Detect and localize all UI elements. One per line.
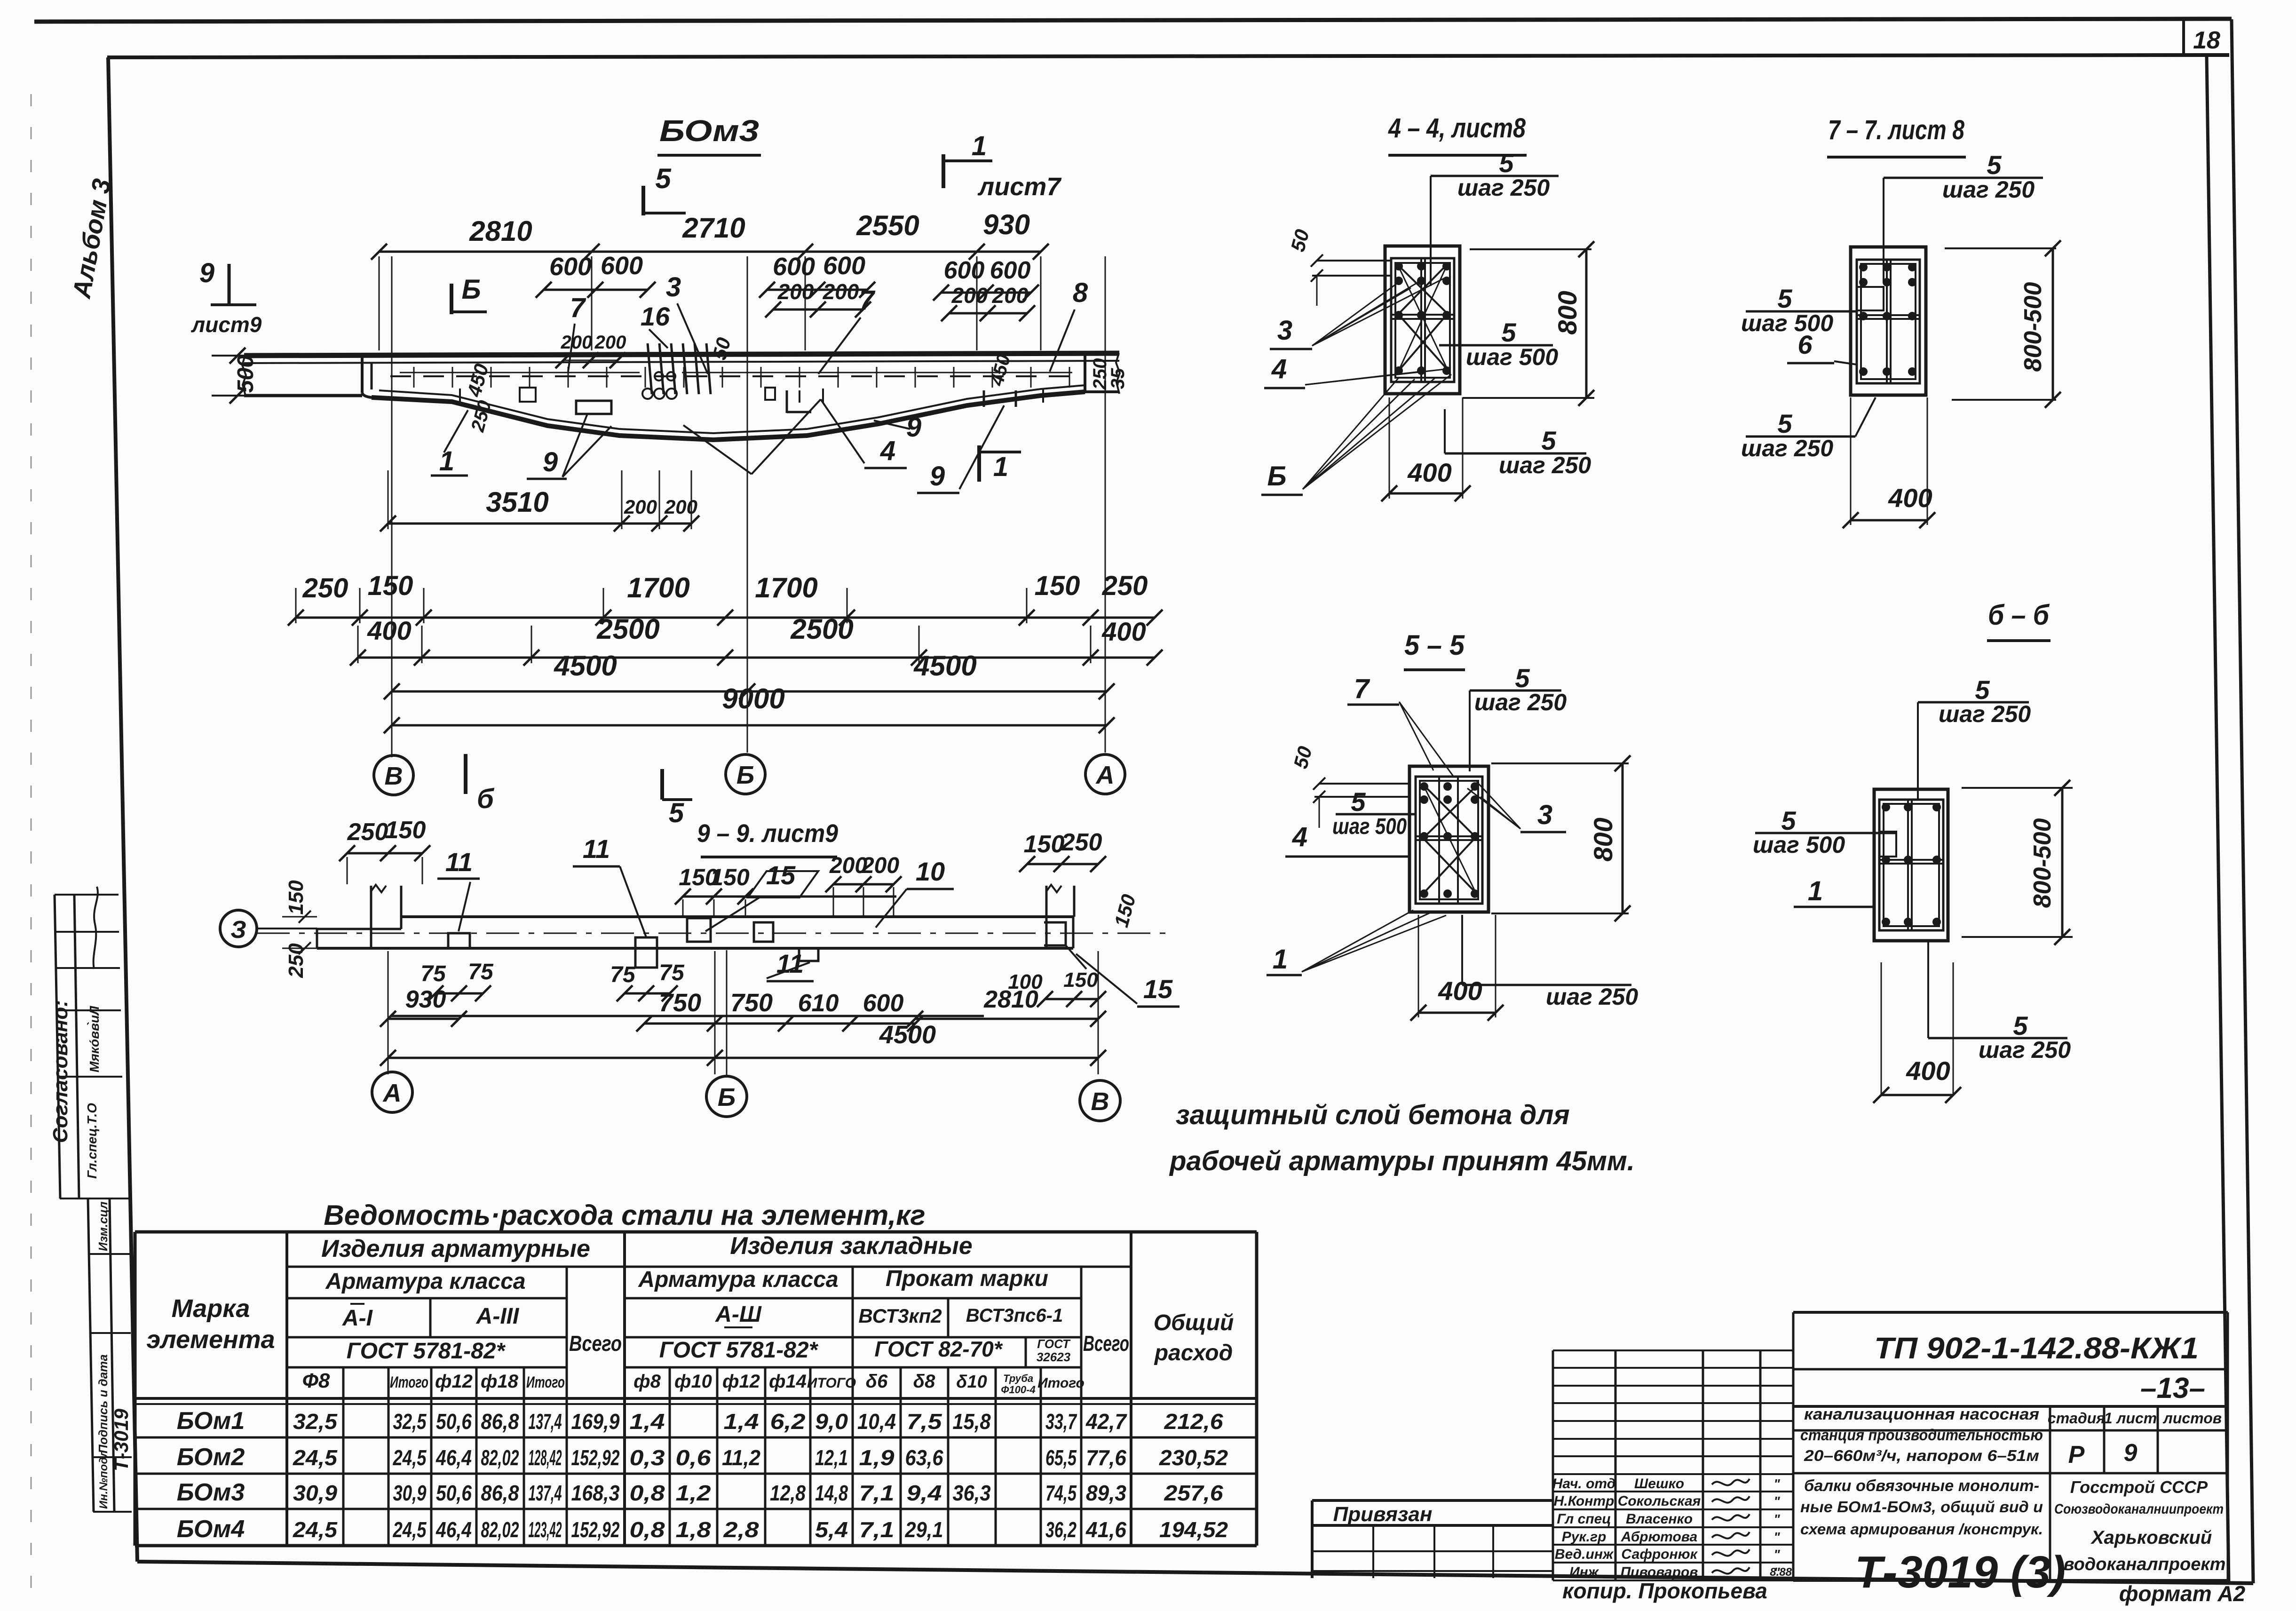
svg-text:ВСТ3кп2: ВСТ3кп2 (858, 1305, 942, 1327)
svg-text:212,6: 212,6 (1164, 1409, 1223, 1434)
svg-text:610: 610 (798, 990, 839, 1017)
svg-text:ф12: ф12 (435, 1371, 473, 1392)
svg-text:128,42: 128,42 (529, 1445, 562, 1470)
svg-text:7: 7 (570, 293, 586, 323)
svg-text:800-500: 800-500 (2029, 818, 2056, 908)
svg-text:0,8: 0,8 (630, 1481, 665, 1505)
svg-text:15: 15 (1143, 974, 1173, 1004)
svg-text:ТП 902-1-142.88-КЖ1: ТП 902-1-142.88-КЖ1 (1874, 1331, 2199, 1365)
svg-text:водоканалпроект: водоканалпроект (2064, 1555, 2226, 1574)
svg-text:Подпись и дата: Подпись и дата (96, 1354, 110, 1453)
svg-text:30,9: 30,9 (293, 1481, 337, 1505)
svg-text:800: 800 (1552, 291, 1582, 334)
svg-text:защитный слой бетона для: защитный слой бетона для (1176, 1100, 1570, 1130)
svg-text:30,9: 30,9 (393, 1481, 427, 1505)
svg-text:Сафронюк: Сафронюк (1621, 1547, 1698, 1562)
svg-text:шаг 250: шаг 250 (1546, 984, 1638, 1010)
svg-text:168,3: 168,3 (571, 1481, 620, 1505)
svg-text:Т-3019 (3): Т-3019 (3) (1855, 1547, 2066, 1597)
svg-text:Итого: Итого (1037, 1375, 1085, 1391)
svg-text:шаг 500: шаг 500 (1332, 814, 1407, 839)
svg-text:": " (1773, 1512, 1780, 1526)
svg-text:Абрютова: Абрютова (1621, 1529, 1697, 1545)
svg-text:200: 200 (992, 283, 1029, 308)
svg-text:600: 600 (823, 252, 865, 280)
svg-text:копир. Прокопьева: копир. Прокопьева (1562, 1579, 1767, 1603)
svg-text:75: 75 (420, 961, 446, 986)
svg-text:Т-3019: Т-3019 (110, 1408, 132, 1471)
svg-text:лист9: лист9 (191, 312, 262, 337)
svg-text:БОм3: БОм3 (659, 114, 759, 148)
svg-text:4500: 4500 (913, 650, 976, 682)
svg-text:Нач. отд: Нач. отд (1552, 1476, 1616, 1492)
svg-text:930: 930 (405, 986, 446, 1013)
svg-text:5: 5 (1541, 426, 1556, 455)
svg-text:24,5: 24,5 (393, 1445, 427, 1470)
svg-text:Труба: Труба (1003, 1373, 1033, 1384)
svg-text:А: А (382, 1079, 402, 1107)
svg-text:10: 10 (916, 857, 945, 886)
svg-text:10,4: 10,4 (857, 1409, 896, 1434)
svg-text:5: 5 (1781, 806, 1796, 835)
svg-text:9 – 9. лист9: 9 – 9. лист9 (697, 819, 838, 848)
svg-text:рабочей арматуры принят 45мм.: рабочей арматуры принят 45мм. (1169, 1146, 1635, 1176)
svg-text:А-I: А-I (342, 1306, 373, 1331)
svg-text:": " (1773, 1530, 1780, 1544)
svg-text:": " (1773, 1547, 1780, 1562)
svg-text:9: 9 (930, 461, 945, 492)
svg-text:32,5: 32,5 (293, 1409, 338, 1434)
svg-text:Ин.№подл: Ин.№подл (97, 1450, 110, 1509)
svg-text:77,6: 77,6 (1086, 1445, 1126, 1470)
svg-text:50,6: 50,6 (436, 1409, 472, 1434)
svg-text:В: В (1091, 1087, 1109, 1116)
svg-text:ные БОм1-БОм3, общий вид и: ные БОм1-БОм3, общий вид и (1800, 1498, 2043, 1516)
svg-text:шаг 250: шаг 250 (1979, 1037, 2071, 1063)
svg-text:200: 200 (777, 279, 814, 304)
svg-text:7,1: 7,1 (859, 1481, 895, 1505)
svg-text:Итого: Итого (526, 1373, 565, 1391)
svg-text:Арматура класса: Арматура класса (638, 1267, 838, 1292)
svg-text:9: 9 (543, 447, 558, 477)
svg-text:18: 18 (2193, 27, 2220, 54)
svg-text:15: 15 (766, 860, 796, 890)
svg-text:А-Ш: А-Ш (715, 1302, 762, 1327)
svg-text:50,6: 50,6 (436, 1481, 472, 1505)
svg-text:Итого: Итого (390, 1373, 428, 1391)
svg-text:Н.Контр: Н.Контр (1554, 1493, 1615, 1509)
svg-text:250: 250 (347, 818, 388, 846)
svg-text:БОм4: БОм4 (177, 1516, 245, 1543)
svg-text:5,4: 5,4 (815, 1517, 848, 1542)
svg-text:169,9: 169,9 (571, 1409, 620, 1434)
svg-text:": " (1773, 1476, 1780, 1491)
svg-text:шаг 250: шаг 250 (1474, 689, 1567, 715)
svg-text:ф18: ф18 (481, 1371, 519, 1392)
svg-text:5: 5 (669, 798, 684, 828)
svg-text:1: 1 (1808, 876, 1823, 906)
svg-text:ГОСТ 5781-82*: ГОСТ 5781-82* (659, 1338, 819, 1363)
svg-text:400: 400 (1101, 617, 1146, 646)
svg-text:257,6: 257,6 (1164, 1481, 1223, 1505)
svg-text:8.88.: 8.88. (1770, 1566, 1795, 1579)
svg-text:11: 11 (445, 847, 473, 877)
svg-text:9: 9 (906, 412, 921, 443)
svg-text:1,2: 1,2 (676, 1481, 711, 1505)
svg-text:5: 5 (1987, 150, 2002, 180)
svg-text:Ф100-4: Ф100-4 (1001, 1384, 1035, 1396)
svg-text:63,6: 63,6 (905, 1445, 943, 1470)
svg-text:1700: 1700 (627, 572, 689, 603)
svg-text:500: 500 (233, 355, 258, 393)
svg-text:20–660м³/ч, напором 6–51м: 20–660м³/ч, напором 6–51м (1804, 1447, 2039, 1464)
svg-text:7: 7 (859, 285, 876, 316)
svg-text:150: 150 (368, 571, 413, 601)
svg-text:Сокольская: Сокольская (1618, 1493, 1701, 1509)
svg-text:δ6: δ6 (866, 1371, 888, 1392)
svg-text:7,1: 7,1 (859, 1517, 895, 1542)
svg-text:123,42: 123,42 (529, 1517, 562, 1542)
svg-text:балки обвязочные монолит-: балки обвязочные монолит- (1804, 1477, 2039, 1495)
svg-text:14,8: 14,8 (815, 1481, 848, 1505)
svg-text:1700: 1700 (755, 572, 817, 603)
svg-text:ГОСТ: ГОСТ (1037, 1337, 1071, 1351)
svg-text:24,5: 24,5 (393, 1517, 427, 1542)
svg-text:86,8: 86,8 (481, 1409, 519, 1434)
svg-text:15,8: 15,8 (953, 1409, 991, 1434)
svg-text:75: 75 (610, 962, 636, 987)
svg-text:29,1: 29,1 (905, 1517, 943, 1542)
svg-text:Инж: Инж (1569, 1564, 1599, 1580)
svg-text:БОм1: БОм1 (177, 1407, 245, 1435)
svg-text:150: 150 (1063, 968, 1098, 992)
svg-text:930: 930 (983, 209, 1030, 240)
svg-text:12,8: 12,8 (770, 1481, 806, 1505)
svg-text:32623: 32623 (1037, 1350, 1071, 1364)
svg-text:5: 5 (1499, 148, 1514, 178)
svg-text:8: 8 (1073, 278, 1088, 308)
svg-text:1 лист: 1 лист (2104, 1410, 2157, 1427)
svg-text:46,4: 46,4 (435, 1517, 472, 1542)
svg-text:32,5: 32,5 (393, 1409, 427, 1434)
svg-text:5: 5 (1501, 317, 1516, 347)
svg-text:шаг 250: шаг 250 (1942, 176, 2035, 203)
svg-text:3: 3 (666, 272, 681, 302)
svg-text:250: 250 (302, 573, 348, 603)
svg-text:Б: Б (718, 1083, 736, 1111)
svg-text:9: 9 (2124, 1439, 2138, 1467)
svg-text:250: 250 (1102, 571, 1148, 601)
svg-text:Мяко́вв̀иЛ: Мяко́вв̀иЛ (87, 1006, 102, 1072)
svg-text:": " (1773, 1494, 1780, 1508)
svg-text:200: 200 (594, 332, 626, 353)
svg-text:3: 3 (1277, 315, 1292, 346)
svg-text:Союзводоканалниипроект: Союзводоканалниипроект (2054, 1501, 2224, 1517)
svg-text:ВСТ3пс6-1: ВСТ3пс6-1 (966, 1305, 1063, 1326)
svg-text:1: 1 (972, 131, 987, 161)
svg-text:Б: Б (461, 274, 481, 305)
svg-text:200: 200 (861, 853, 899, 878)
svg-text:Госстрой СССР: Госстрой СССР (2070, 1477, 2208, 1497)
svg-text:5: 5 (1351, 787, 1366, 817)
svg-text:0,8: 0,8 (630, 1517, 665, 1542)
svg-text:формат А2: формат А2 (2119, 1581, 2246, 1606)
svg-text:7: 7 (1354, 674, 1370, 704)
svg-text:0,6: 0,6 (676, 1445, 711, 1470)
svg-text:2,8: 2,8 (723, 1517, 759, 1542)
svg-text:Прокат марки: Прокат марки (886, 1266, 1048, 1291)
svg-text:Пивоваров: Пивоваров (1621, 1564, 1698, 1580)
svg-text:2710: 2710 (682, 212, 745, 244)
svg-text:Харьковский: Харьковский (2090, 1527, 2212, 1548)
svg-text:152,92: 152,92 (571, 1445, 620, 1470)
svg-text:Изделия закладные: Изделия закладные (730, 1232, 972, 1260)
svg-text:137,4: 137,4 (529, 1481, 562, 1505)
svg-text:Изм.сцл: Изм.сцл (96, 1201, 110, 1251)
svg-text:24,5: 24,5 (293, 1445, 338, 1470)
svg-text:Привязан: Привязан (1333, 1503, 1433, 1526)
svg-text:800-500: 800-500 (2019, 282, 2047, 372)
svg-text:2550: 2550 (856, 210, 919, 241)
svg-text:36,2: 36,2 (1045, 1517, 1077, 1542)
svg-text:89,3: 89,3 (1086, 1481, 1126, 1505)
svg-text:Арматура класса: Арматура класса (325, 1269, 525, 1294)
svg-text:600: 600 (944, 257, 985, 284)
svg-text:230,52: 230,52 (1159, 1445, 1228, 1470)
svg-text:150: 150 (710, 864, 750, 890)
svg-text:0,3: 0,3 (630, 1445, 665, 1470)
svg-text:δ10: δ10 (956, 1372, 987, 1392)
svg-text:400: 400 (1888, 483, 1932, 513)
svg-text:Общий: Общий (1154, 1310, 1234, 1335)
svg-text:6: 6 (1797, 330, 1813, 359)
svg-text:3510: 3510 (486, 486, 548, 518)
svg-text:5: 5 (1975, 675, 1990, 705)
svg-text:600: 600 (549, 253, 592, 281)
svg-text:800: 800 (1588, 817, 1618, 861)
svg-text:5 – 5: 5 – 5 (1404, 629, 1465, 661)
svg-text:элемента: элемента (146, 1325, 275, 1354)
svg-text:ГОСТ 82-70*: ГОСТ 82-70* (874, 1337, 1003, 1361)
svg-text:шаг 250: шаг 250 (1457, 175, 1550, 201)
svg-text:4: 4 (1292, 822, 1307, 852)
svg-text:24,5: 24,5 (293, 1517, 338, 1542)
svg-text:400: 400 (1438, 976, 1482, 1006)
svg-text:шаг 250: шаг 250 (1741, 435, 1833, 461)
svg-text:75: 75 (468, 960, 494, 984)
svg-text:750: 750 (659, 989, 701, 1017)
svg-text:ИТОГО: ИТОГО (807, 1375, 856, 1391)
svg-text:6,2: 6,2 (770, 1409, 806, 1434)
svg-text:4: 4 (1271, 354, 1287, 384)
svg-text:Рук.гр: Рук.гр (1562, 1529, 1607, 1545)
svg-text:150: 150 (1035, 571, 1080, 601)
svg-text:шаг 250: шаг 250 (1939, 701, 2031, 727)
svg-text:стадия: стадия (2048, 1410, 2105, 1427)
svg-text:Согласовано:: Согласовано: (49, 1000, 72, 1143)
svg-text:150: 150 (285, 880, 308, 915)
svg-text:шаг 250: шаг 250 (1499, 452, 1591, 478)
svg-text:200: 200 (951, 283, 988, 308)
svg-text:12,1: 12,1 (815, 1445, 848, 1470)
svg-text:65,5: 65,5 (1045, 1445, 1077, 1470)
svg-text:δ8: δ8 (913, 1371, 935, 1392)
svg-text:137,4: 137,4 (529, 1409, 562, 1434)
svg-text:200: 200 (823, 279, 859, 304)
svg-text:36,3: 36,3 (953, 1481, 991, 1505)
svg-text:канализационная насосная: канализационная насосная (1804, 1405, 2039, 1423)
svg-text:5: 5 (1777, 284, 1792, 313)
svg-text:Всего: Всего (1083, 1331, 1129, 1356)
svg-text:станция производительностью: станция производительностью (1800, 1426, 2043, 1444)
svg-text:9,0: 9,0 (815, 1409, 848, 1434)
svg-text:600: 600 (601, 252, 643, 280)
svg-text:46,4: 46,4 (435, 1445, 472, 1470)
svg-text:400: 400 (1407, 458, 1451, 487)
svg-text:11: 11 (583, 834, 610, 864)
svg-text:Р: Р (2068, 1441, 2085, 1468)
svg-text:9000: 9000 (722, 683, 784, 714)
svg-text:150: 150 (1024, 831, 1065, 858)
svg-text:1,4: 1,4 (630, 1409, 665, 1434)
svg-text:100: 100 (1008, 970, 1043, 993)
svg-text:БОм3: БОм3 (177, 1479, 245, 1506)
svg-text:400: 400 (1906, 1056, 1950, 1086)
svg-text:Ведомость·расхода стали на эле: Ведомость·расхода стали на элемент,кг (324, 1199, 925, 1231)
svg-text:7,5: 7,5 (907, 1409, 943, 1434)
svg-text:Б: Б (736, 761, 754, 789)
svg-text:33,7: 33,7 (1045, 1409, 1077, 1434)
svg-text:4500: 4500 (879, 1021, 936, 1049)
svg-text:Вед.инж: Вед.инж (1555, 1547, 1614, 1562)
svg-text:б – б: б – б (1988, 599, 2050, 631)
svg-text:4: 4 (880, 436, 895, 466)
svg-text:194,52: 194,52 (1159, 1517, 1228, 1542)
svg-text:А-III: А-III (476, 1304, 520, 1329)
svg-text:200: 200 (664, 496, 697, 518)
svg-text:200: 200 (561, 332, 593, 353)
svg-text:35: 35 (1108, 368, 1128, 389)
svg-text:А: А (1095, 761, 1115, 789)
svg-text:ГОСТ 5781-82*: ГОСТ 5781-82* (347, 1339, 506, 1364)
svg-text:11,2: 11,2 (722, 1445, 760, 1470)
svg-text:250: 250 (1061, 829, 1102, 856)
svg-text:Ф8: Ф8 (302, 1369, 330, 1392)
svg-text:5: 5 (1515, 663, 1530, 693)
svg-text:9,4: 9,4 (907, 1481, 942, 1505)
svg-text:шаг 500: шаг 500 (1466, 344, 1558, 370)
svg-text:4500: 4500 (554, 650, 617, 682)
svg-text:7 – 7. лист 8: 7 – 7. лист 8 (1828, 115, 1965, 145)
svg-text:Гл.спец.Т.О: Гл.спец.Т.О (85, 1103, 99, 1179)
svg-text:Изделия арматурные: Изделия арматурные (321, 1235, 590, 1262)
svg-text:шаг 500: шаг 500 (1753, 832, 1845, 858)
svg-text:–13–: –13– (2140, 1372, 2205, 1405)
svg-text:1,8: 1,8 (676, 1517, 711, 1542)
svg-text:400: 400 (367, 616, 411, 645)
svg-text:ф10: ф10 (674, 1371, 712, 1392)
svg-text:16: 16 (641, 302, 670, 331)
svg-text:расход: расход (1154, 1341, 1233, 1365)
svg-text:600: 600 (990, 257, 1031, 284)
svg-text:Марка: Марка (172, 1294, 250, 1323)
svg-text:600: 600 (863, 990, 904, 1017)
svg-text:ф14: ф14 (769, 1371, 807, 1392)
svg-text:листов: листов (2162, 1410, 2222, 1427)
svg-text:75: 75 (659, 960, 685, 985)
svg-text:В: В (385, 762, 403, 790)
svg-text:82,02: 82,02 (481, 1445, 519, 1470)
svg-text:шаг 500: шаг 500 (1741, 310, 1833, 336)
svg-text:Гл спец: Гл спец (1557, 1511, 1611, 1527)
svg-text:5: 5 (2013, 1011, 2028, 1040)
svg-text:Шешко: Шешко (1634, 1476, 1684, 1492)
svg-text:Власенко: Власенко (1626, 1511, 1693, 1527)
svg-text:БОм2: БОм2 (177, 1444, 245, 1471)
svg-text:лист7: лист7 (977, 173, 1062, 201)
svg-text:2500: 2500 (790, 613, 853, 645)
svg-text:З: З (230, 916, 246, 944)
svg-text:5: 5 (1777, 409, 1792, 438)
svg-text:Б: Б (1267, 461, 1286, 492)
svg-text:1,4: 1,4 (724, 1409, 759, 1434)
svg-text:152,92: 152,92 (571, 1517, 620, 1542)
svg-text:600: 600 (773, 253, 815, 281)
svg-text:1,9: 1,9 (859, 1445, 895, 1470)
svg-text:б: б (477, 784, 495, 814)
svg-text:ф12: ф12 (722, 1371, 760, 1392)
svg-text:ф8: ф8 (633, 1371, 661, 1392)
svg-text:750: 750 (730, 989, 773, 1017)
svg-text:Всего: Всего (569, 1331, 622, 1356)
svg-text:2500: 2500 (596, 613, 659, 645)
svg-text:схема армирования /конструк.: схема армирования /конструк. (1800, 1521, 2043, 1538)
svg-text:1: 1 (1273, 944, 1288, 975)
svg-text:4 – 4, лист8: 4 – 4, лист8 (1388, 113, 1526, 143)
svg-text:1: 1 (439, 446, 454, 476)
svg-text:3: 3 (1537, 800, 1552, 830)
svg-text:2810: 2810 (469, 215, 532, 247)
svg-text:150: 150 (385, 817, 426, 844)
svg-text:5: 5 (655, 163, 672, 194)
svg-text:74,5: 74,5 (1045, 1481, 1077, 1505)
svg-text:41,6: 41,6 (1085, 1517, 1126, 1542)
svg-text:9: 9 (199, 258, 214, 288)
svg-text:82,02: 82,02 (481, 1517, 519, 1542)
svg-text:1: 1 (993, 452, 1008, 482)
svg-text:86,8: 86,8 (481, 1481, 519, 1505)
svg-text:200: 200 (624, 496, 657, 518)
svg-text:42,7: 42,7 (1085, 1409, 1127, 1434)
